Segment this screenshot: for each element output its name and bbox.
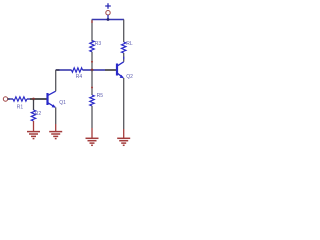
svg-text:R5: R5 [97,93,104,99]
svg-text:RL: RL [126,41,133,47]
svg-text:R1: R1 [17,105,24,111]
svg-text:Q1: Q1 [59,100,66,106]
svg-text:R3: R3 [95,41,102,47]
svg-text:R4: R4 [76,74,83,80]
svg-text:R2: R2 [35,111,42,117]
svg-text:Q2: Q2 [126,74,133,80]
